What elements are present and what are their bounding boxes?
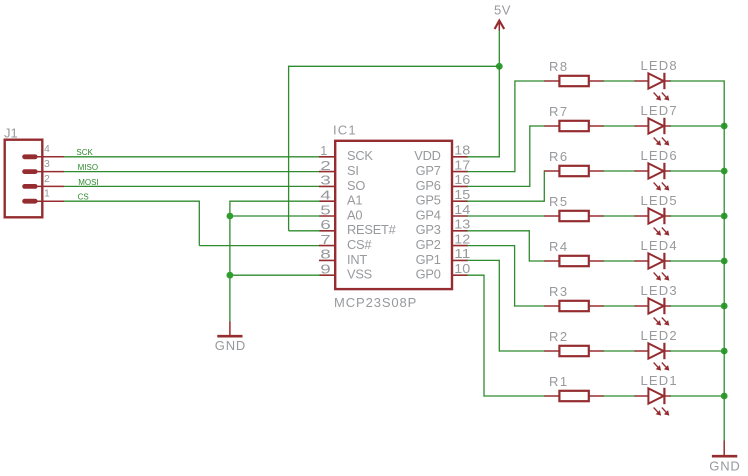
svg-text:1: 1 xyxy=(44,188,50,200)
wire GP0 (IC1) to R1 xyxy=(467,275,545,397)
junction GND-A0 xyxy=(227,213,234,220)
svg-text:GP4: GP4 xyxy=(416,207,441,222)
LED LED4 xyxy=(635,253,672,281)
wire R1 to LED1 xyxy=(603,395,636,397)
ground GND1 symbol xyxy=(217,322,242,337)
junction GND-VSS xyxy=(227,272,234,279)
wire VSS to GND net xyxy=(230,274,320,276)
junction rail LED1 xyxy=(721,393,728,400)
LED LED5 xyxy=(635,208,672,236)
resistor R1 xyxy=(544,391,604,401)
IC1 pin 8 stub xyxy=(319,259,336,261)
svg-text:GND: GND xyxy=(215,338,246,353)
wire LED7 to cathode rail xyxy=(670,125,724,127)
wire GP1 (IC1) to R2 xyxy=(467,260,545,352)
J1 pin 2 xyxy=(25,184,64,189)
svg-text:SCK: SCK xyxy=(76,148,93,157)
J1 pin 1 xyxy=(25,199,64,204)
svg-text:LED8: LED8 xyxy=(641,58,678,73)
resistor R5 xyxy=(544,211,604,221)
resistor R8 xyxy=(544,76,604,86)
svg-text:4: 4 xyxy=(44,143,50,155)
IC1 pin 15 stub xyxy=(452,200,468,202)
svg-text:5V: 5V xyxy=(494,3,511,18)
wire LED5 to cathode rail xyxy=(670,215,724,217)
svg-text:SCK: SCK xyxy=(347,148,373,163)
wire LED8 to cathode rail xyxy=(670,80,724,82)
svg-text:2: 2 xyxy=(44,173,50,185)
svg-text:CS#: CS# xyxy=(347,237,372,252)
wire A1 to GND net xyxy=(230,200,320,202)
wire GP3 (IC1) to R4 xyxy=(467,230,545,262)
resistor R6 xyxy=(544,166,604,176)
svg-text:18: 18 xyxy=(454,144,470,158)
IC1 pin 12 stub xyxy=(452,245,468,247)
svg-text:LED3: LED3 xyxy=(641,283,678,298)
svg-text:R2: R2 xyxy=(549,329,569,344)
svg-text:12: 12 xyxy=(454,232,470,246)
IC1 pin 16 stub xyxy=(452,185,468,187)
svg-text:MOSI: MOSI xyxy=(78,178,98,187)
resistor R7 xyxy=(544,121,604,131)
junction rail LED5 xyxy=(721,213,728,220)
wire GP4 (IC1) to R5 xyxy=(467,215,545,217)
svg-text:15: 15 xyxy=(454,188,470,202)
svg-text:IC1: IC1 xyxy=(333,122,357,137)
junction rail LED2 xyxy=(721,348,728,355)
svg-text:14: 14 xyxy=(454,203,470,217)
wire LED1 to cathode rail xyxy=(670,395,724,397)
svg-text:GP1: GP1 xyxy=(416,252,441,267)
J1 pin 3 xyxy=(25,169,64,174)
junction rail LED4 xyxy=(721,258,728,265)
LED LED1 xyxy=(635,388,672,416)
wire GND net vertical xyxy=(229,201,231,322)
junction 5V node xyxy=(496,63,503,70)
svg-text:LED6: LED6 xyxy=(641,148,678,163)
svg-text:6: 6 xyxy=(320,218,331,232)
svg-text:10: 10 xyxy=(454,262,470,276)
svg-text:7: 7 xyxy=(320,233,331,247)
svg-text:VSS: VSS xyxy=(347,267,372,282)
junction rail LED7 xyxy=(721,123,728,130)
wire net CS (J1.1 to IC1.7) xyxy=(64,201,320,246)
wire 5V to RESET# (vertical + horizontal) xyxy=(289,66,320,231)
svg-text:MISO: MISO xyxy=(78,163,98,172)
svg-text:3: 3 xyxy=(320,174,331,188)
svg-text:LED7: LED7 xyxy=(641,103,678,118)
wire cathode rail vertical xyxy=(723,80,725,440)
svg-text:4: 4 xyxy=(320,189,331,203)
IC1 pin 17 stub xyxy=(452,171,468,173)
IC IC1 body xyxy=(335,141,452,289)
IC1 pin 6 stub xyxy=(319,230,336,232)
wire R4 to LED4 xyxy=(603,260,636,262)
IC1 pin 14 stub xyxy=(452,215,468,217)
svg-text:RESET#: RESET# xyxy=(347,222,397,237)
svg-text:A1: A1 xyxy=(347,193,362,208)
resistor R3 xyxy=(544,301,604,311)
svg-text:SI: SI xyxy=(347,163,359,178)
IC1 pin 11 stub xyxy=(452,259,468,261)
svg-text:R7: R7 xyxy=(549,104,569,119)
wire R6 to LED6 xyxy=(603,170,636,172)
wire R3 to LED3 xyxy=(603,305,636,307)
svg-text:R3: R3 xyxy=(549,284,569,299)
svg-text:GP3: GP3 xyxy=(416,222,441,237)
svg-text:CS: CS xyxy=(78,193,89,202)
svg-text:R1: R1 xyxy=(549,374,569,389)
IC1 pin 9 stub xyxy=(319,274,336,276)
wire A0 to GND net xyxy=(230,215,320,217)
svg-text:9: 9 xyxy=(320,263,331,277)
svg-text:16: 16 xyxy=(454,173,470,187)
svg-text:R5: R5 xyxy=(549,194,569,209)
wire GP5 (IC1) to R6 xyxy=(467,170,544,202)
IC1 pin 18 stub xyxy=(452,156,468,158)
svg-text:GP5: GP5 xyxy=(416,193,441,208)
ground GND2 symbol xyxy=(712,441,737,457)
svg-text:R6: R6 xyxy=(549,149,569,164)
wire 5V to VDD pin 18 xyxy=(467,66,500,157)
svg-text:SO: SO xyxy=(347,178,365,193)
svg-text:8: 8 xyxy=(320,248,331,262)
svg-text:LED1: LED1 xyxy=(641,373,678,388)
svg-text:R8: R8 xyxy=(549,59,569,74)
svg-text:GP7: GP7 xyxy=(416,163,441,178)
svg-text:VDD: VDD xyxy=(414,148,440,163)
IC1 pin 3 stub xyxy=(319,185,336,187)
wire GP7 (IC1) to R8 xyxy=(467,80,545,172)
svg-text:A0: A0 xyxy=(347,207,362,222)
wire R8 to LED8 xyxy=(603,80,636,82)
wire R7 to LED7 xyxy=(603,125,636,127)
resistor R4 xyxy=(544,256,604,266)
J1 pin 4 xyxy=(25,154,64,159)
svg-text:3: 3 xyxy=(44,158,50,170)
wire net MISO (J1.3 to IC1.2) xyxy=(64,171,320,173)
IC1 pin 1 stub xyxy=(319,156,336,158)
svg-text:INT: INT xyxy=(347,252,367,267)
IC1 pin 10 stub xyxy=(452,274,468,276)
wire R5 to LED5 xyxy=(603,215,636,217)
svg-text:GP6: GP6 xyxy=(416,178,441,193)
LED LED7 xyxy=(635,118,672,146)
wire net SCK (J1.4 to IC1.1) xyxy=(64,156,320,158)
svg-text:13: 13 xyxy=(454,218,470,232)
wire LED2 to cathode rail xyxy=(670,350,724,352)
wire LED4 to cathode rail xyxy=(670,260,724,262)
svg-text:5: 5 xyxy=(320,203,331,217)
supply 5V symbol xyxy=(495,21,505,31)
svg-text:LED4: LED4 xyxy=(641,238,678,253)
connector J1 body xyxy=(5,140,43,218)
IC1 pin 7 stub xyxy=(319,245,336,247)
svg-text:MCP23S08P: MCP23S08P xyxy=(334,295,417,310)
svg-text:GP0: GP0 xyxy=(416,267,441,282)
wire LED3 to cathode rail xyxy=(670,305,724,307)
svg-text:GP2: GP2 xyxy=(416,237,441,252)
junction rail LED3 xyxy=(721,303,728,310)
wire net MOSI (J1.2 to IC1.3) xyxy=(64,185,320,187)
wire LED6 to cathode rail xyxy=(670,170,724,172)
svg-text:GND: GND xyxy=(709,458,740,473)
wire R2 to LED2 xyxy=(603,350,636,352)
LED LED8 xyxy=(635,73,672,101)
IC1 pin 2 stub xyxy=(319,171,336,173)
resistor R2 xyxy=(544,346,604,356)
svg-text:17: 17 xyxy=(454,158,470,172)
wire GP6 (IC1) to R7 xyxy=(467,125,545,187)
LED LED6 xyxy=(635,163,672,191)
wire 5V horizontal run xyxy=(289,65,500,67)
svg-text:LED5: LED5 xyxy=(641,193,678,208)
svg-text:LED2: LED2 xyxy=(641,328,678,343)
svg-text:J1: J1 xyxy=(4,125,18,140)
svg-text:R4: R4 xyxy=(549,239,569,254)
wire GP2 (IC1) to R3 xyxy=(467,245,545,307)
LED LED2 xyxy=(635,343,672,371)
IC1 pin 13 stub xyxy=(452,230,468,232)
LED LED3 xyxy=(635,298,672,326)
svg-text:11: 11 xyxy=(454,247,470,261)
IC1 pin 5 stub xyxy=(319,215,336,217)
IC1 pin 4 stub xyxy=(319,200,336,202)
svg-text:1: 1 xyxy=(320,144,327,158)
junction rail LED6 xyxy=(721,168,728,175)
wire 5V vertical to junction xyxy=(498,31,500,67)
svg-text:2: 2 xyxy=(320,159,331,173)
